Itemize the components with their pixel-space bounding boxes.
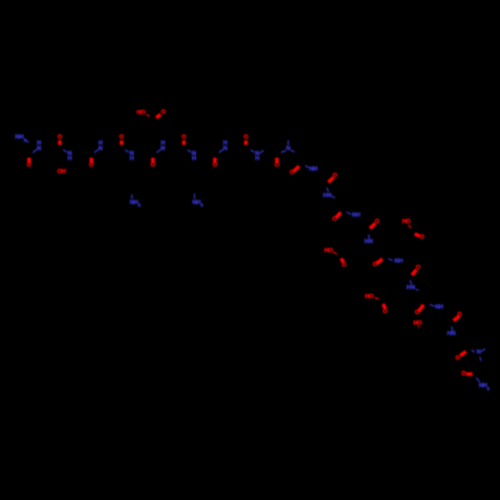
bond C-N stub d9 <box>471 350 474 352</box>
amide H label (N3) <box>98 141 102 147</box>
bond N-CH2 stub <box>480 357 482 361</box>
svg-text:N: N <box>223 146 227 152</box>
carbonyl C=O double bond d3 <box>336 212 341 217</box>
bond C-N4 stub <box>157 149 161 152</box>
carbonyl C=O double bond d4 <box>370 224 376 229</box>
svg-text:O: O <box>119 135 124 141</box>
amide H label (N5) <box>223 141 227 147</box>
svg-text:H: H <box>130 156 134 162</box>
carbonyl C=O double bond d8 <box>454 316 460 321</box>
svg-text:O: O <box>342 263 347 269</box>
bond C-N8 stub <box>187 150 191 153</box>
bond C-N stub d8 <box>452 327 453 332</box>
svg-text:O: O <box>461 371 466 377</box>
tertiary amine N label <box>477 350 481 356</box>
bond C-N6 stub <box>63 150 67 153</box>
svg-text:O: O <box>415 310 420 316</box>
carbonyl C=O double bond (up 1) <box>58 140 62 145</box>
bond C-N stub d1 <box>305 165 309 168</box>
amide N5 label <box>223 146 227 152</box>
amide N7 label <box>130 151 134 157</box>
carboxyl C=O double bond g3 <box>383 304 386 309</box>
svg-text:O: O <box>383 309 388 315</box>
svg-text:O: O <box>328 248 333 254</box>
carbonyl O label (up 1) <box>58 135 63 141</box>
glutamate carboxyl HO label <box>137 110 146 116</box>
svg-text:N: N <box>286 146 290 152</box>
C-terminal carbonyl O label <box>461 371 466 377</box>
bond N-Ca stub d2 <box>332 196 335 198</box>
carbonyl O label (up 3) <box>182 135 187 141</box>
svg-text:O: O <box>420 234 425 240</box>
carbonyl C1=O double bond <box>27 158 31 163</box>
bond O-C stub g4 <box>408 225 411 228</box>
svg-text:O: O <box>244 135 249 141</box>
carbonyl C=O double bond d5 <box>377 259 383 264</box>
proline ring bond stub (up) <box>287 140 289 145</box>
svg-text:O: O <box>182 135 187 141</box>
carbonyl C=O double bond (down 3) <box>151 158 155 163</box>
glutamate-4 carboxyl HO label <box>402 219 411 225</box>
bond C-N5 stub <box>219 149 223 152</box>
svg-text:O: O <box>417 320 422 326</box>
bond C-N stub d4 <box>368 235 369 239</box>
amide N8 label <box>192 151 196 157</box>
carbonyl C=O double bond d6 <box>412 270 417 276</box>
svg-text:O: O <box>89 163 94 169</box>
bond C-N stub d3 <box>347 212 352 214</box>
carbonyl O label (down 3) <box>151 163 156 169</box>
svg-text:N: N <box>411 285 415 291</box>
carbonyl O label (down 4) <box>213 163 218 169</box>
amide HN label d8 <box>447 331 455 337</box>
amide N9 label <box>255 151 259 157</box>
amide H label (N9) <box>255 156 259 162</box>
amide HN label d4 <box>364 239 372 245</box>
carbonyl O label d6 <box>416 265 421 271</box>
carbonyl C=O double bond (after proline) <box>294 166 299 171</box>
carboxyl O label g2 <box>342 263 347 269</box>
carbonyl C=O double bond (down 4) <box>213 158 217 163</box>
bond C-N stub d2 <box>327 188 329 192</box>
glutamate-2 carboxyl HO label <box>324 248 333 254</box>
amide NH label d7 <box>435 305 443 311</box>
amide H label (N7) <box>130 156 134 162</box>
carbonyl O label (up 4) <box>244 135 249 141</box>
serine hydroxyl OH label <box>57 169 66 175</box>
carbonyl O label d9 <box>455 355 460 361</box>
svg-text:O: O <box>406 219 411 225</box>
bond O-C stub <box>146 114 149 116</box>
bond C-N2 stub <box>33 149 37 152</box>
bond C-N stub d6 <box>410 280 412 284</box>
carboxyl O label g3 <box>383 309 388 315</box>
carbonyl O1 label <box>27 163 32 169</box>
threonine hydroxyl HO label <box>413 320 422 326</box>
lysine-1 NH2 label <box>130 200 141 208</box>
svg-text:O: O <box>369 294 374 300</box>
svg-text:N: N <box>161 146 165 152</box>
bond C-N stub (C-terminus) <box>476 378 480 382</box>
amide H label (N8) <box>192 156 196 162</box>
amide N4 label <box>161 146 165 152</box>
amide H label (N6) <box>68 156 72 162</box>
lysine-2 NH2 label <box>192 200 203 208</box>
svg-text:O: O <box>141 110 146 116</box>
carbonyl C=O double bond d2 <box>328 177 333 182</box>
carbonyl O label d2 <box>333 173 338 179</box>
carbonyl C=O double bond (up 4) <box>244 140 248 145</box>
svg-text:H: H <box>255 156 259 162</box>
amide N6 label <box>68 151 72 157</box>
bond O-C stub g3 <box>375 298 379 300</box>
svg-text:N: N <box>327 193 331 199</box>
bond N-Ca stub d6 <box>416 289 419 290</box>
carbonyl C=O double bond (down 5) <box>275 158 279 163</box>
carbonyl O label (up 2) <box>119 135 124 141</box>
amine NH2 label (N-terminus) <box>15 135 27 143</box>
amide NH label d3 <box>352 212 360 218</box>
bond N9-Ca stub (up-right) <box>260 150 264 153</box>
bond N-CH3 stub <box>481 349 485 352</box>
lysine-1 bond stub <box>131 194 133 199</box>
svg-text:H: H <box>399 259 403 265</box>
carbonyl O label (down 5) <box>275 163 280 169</box>
svg-text:O: O <box>455 355 460 361</box>
svg-text:O: O <box>373 262 378 268</box>
svg-text:N: N <box>369 239 373 245</box>
bond C-N stub d7 <box>430 304 435 306</box>
carbonyl O label d8 <box>457 312 462 318</box>
carbonyl O label d4 <box>375 219 380 225</box>
amide H label (N2) <box>37 141 41 147</box>
C-terminal C=O double bond <box>466 372 472 376</box>
carbonyl C=O double bond (down 2) <box>90 158 94 163</box>
carbonyl O label d7 <box>415 310 420 316</box>
bond C-N7 stub <box>125 150 129 153</box>
carboxyl C=O double bond g2 <box>341 259 344 263</box>
amide N3 label <box>98 146 102 152</box>
proline bond stub (down-left) <box>281 151 286 153</box>
amide NH label d1 <box>309 167 317 173</box>
C-terminal amide NH2 label <box>479 383 490 391</box>
svg-text:N: N <box>37 146 41 152</box>
svg-text:H: H <box>356 212 360 218</box>
carboxyl C=O double bond g4 <box>415 234 420 236</box>
bond C-N3 stub <box>94 149 98 152</box>
proline bond stub (down-right) <box>291 150 295 152</box>
svg-text:N: N <box>98 146 102 152</box>
amide N2 label <box>37 146 41 152</box>
bond C-N9 stub <box>251 150 255 153</box>
svg-text:O: O <box>27 163 32 169</box>
svg-text:O: O <box>151 163 156 169</box>
carbonyl O label (after proline) <box>290 170 295 176</box>
carbonyl C=O double bond d7 <box>419 305 424 311</box>
svg-text:O: O <box>58 135 63 141</box>
amide HN label d2 <box>323 193 332 199</box>
svg-text:O: O <box>213 163 218 169</box>
svg-text:H: H <box>62 169 66 175</box>
svg-text:H: H <box>192 156 196 162</box>
carbonyl O label d5 <box>373 262 378 268</box>
svg-text:O: O <box>332 216 337 222</box>
carboxyl O label <box>161 110 166 116</box>
carbonyl C=O double bond d9 <box>460 352 466 356</box>
lysine-2 bond stub <box>194 194 196 200</box>
svg-text:H: H <box>439 305 443 311</box>
svg-text:H: H <box>313 167 317 173</box>
glutamate-3 carboxyl HO label <box>365 294 374 300</box>
svg-text:H: H <box>68 156 72 162</box>
svg-text:N: N <box>477 350 481 356</box>
svg-text:N: N <box>451 331 455 337</box>
svg-text:O: O <box>161 110 166 116</box>
carbonyl O label d3 <box>332 216 337 222</box>
amide HN label d6 <box>406 285 415 291</box>
bond O-C stub g2 <box>333 252 337 255</box>
carbonyl C=O double bond (up 3) <box>182 140 186 145</box>
proline N label <box>286 146 290 152</box>
carbonyl O label (down 2) <box>89 163 94 169</box>
carbonyl C=O double bond (up 2) <box>120 140 124 145</box>
carboxyl O label g4 <box>420 234 425 240</box>
bond C-N stub d5 <box>388 259 392 261</box>
amide H label (N4) <box>161 141 165 147</box>
svg-text:O: O <box>275 163 280 169</box>
bond O-C stub thr <box>417 326 419 328</box>
carboxyl C=O double bond <box>156 114 161 117</box>
amide NH label d5 <box>394 259 402 265</box>
bond N-Ca stub <box>25 140 29 143</box>
